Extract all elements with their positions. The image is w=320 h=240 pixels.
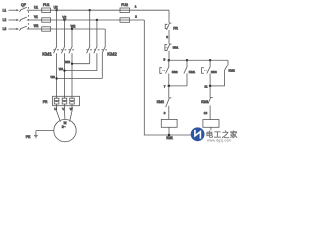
junction row1-KM2 [89,9,91,11]
contact KM2 aux (NO hold) [227,60,229,65]
wire KM2 pole3 cross to KM1 pole1 [57,78,103,80]
interlock KM1 (NC) [209,86,211,98]
breaker QF pole 3 [20,29,21,31]
svg-text:KM1: KM1 [42,52,52,57]
svg-text:U2: U2 [54,6,58,10]
breaker QF pole 2 [20,20,21,22]
wire KM1 pole3 feed [71,29,73,46]
svg-text:U: U [54,107,56,111]
coil KM1 [161,119,177,127]
wire row1 fuse to control elbow [51,9,169,11]
contactor KM1 contact 1 [54,46,57,53]
fuse FU2 pole 1 [120,8,130,13]
svg-text:KM2: KM2 [157,100,164,104]
wire L1 arrow [9,9,17,11]
svg-text:V2: V2 [62,15,66,19]
wire control left rail [144,20,191,135]
wire FR to motor V [64,106,66,120]
wire KM2 pole1 feed [89,10,91,46]
contactor KM1 contact 3 [69,46,72,53]
fuse FU1 pole 1 [42,8,51,12]
wire L3 arrow [9,28,17,30]
wire KM1 pole2 feed [64,20,66,46]
pushbutton SB1 (NC stop) [169,43,172,45]
svg-text:W2: W2 [71,24,76,28]
svg-text:13: 13 [204,111,208,115]
thermal relay FR heater 3 [71,96,73,98]
junction row3-KM1 [71,28,73,30]
coil KM2 [203,120,219,128]
wire KM2 pole2 feed [96,20,98,46]
wire row3 fuse to KM2 pole3 corner [51,28,106,30]
junction row2-KM2 [96,19,98,21]
svg-text:PE: PE [26,135,31,139]
node 11 [210,85,225,87]
svg-text:V1: V1 [34,15,38,19]
svg-text:3~: 3~ [62,125,66,129]
svg-text:FR: FR [43,100,48,104]
junction bus-SB3 [209,59,211,61]
fuse FU1 pole 3 [42,27,51,31]
svg-text:L1: L1 [3,8,7,12]
contactor KM1 contact 2 [61,46,64,53]
wire FR to SB1 [168,30,170,44]
svg-text:1: 1 [135,5,137,9]
thermal relay FR box [53,96,80,105]
junction row2-KM1 [63,19,65,21]
svg-text:FR: FR [173,27,178,31]
breaker QF linkage dashed [28,7,30,31]
node 7 [169,85,187,87]
wire row2 fuse to control rail elbow [51,19,145,21]
wire L2 arrow [9,19,17,21]
svg-text:5: 5 [164,58,166,62]
wire KM2 pole3 feed [104,29,106,46]
wire row2 QF to fuse [27,19,42,21]
svg-text:W1: W1 [34,24,39,28]
svg-text:W13: W13 [65,61,71,64]
breaker QF pole 1 [20,10,21,12]
node 5 [168,59,171,62]
svg-text:L2: L2 [3,18,7,22]
pushbutton SB2 (NO start fwd) [168,60,170,66]
svg-text:QF: QF [21,3,26,7]
svg-text:W: W [70,107,73,111]
contactor KM2 contact 3 [102,46,105,53]
svg-text:KM2: KM2 [229,68,236,72]
svg-text:3: 3 [166,35,168,39]
thermal relay FR heater 2 [64,96,66,98]
fuse FU2 pole 2 [120,18,130,23]
motor M [54,119,76,141]
wire KM2 pole2 cross to KM1 pole2 [65,70,97,72]
svg-text:SB1: SB1 [173,46,179,50]
svg-text:SB2: SB2 [172,70,178,74]
contactor KM2 contact 1 [87,46,90,53]
wire KM2 pole1 cross to KM1 pole3 [72,63,90,65]
svg-text:SB3: SB3 [211,70,217,74]
contactor KM2 contact 2 [94,46,97,53]
svg-text:2: 2 [135,15,137,19]
svg-text:11: 11 [204,84,207,88]
wire PE to motor [36,130,54,132]
contactor KM2 linkage dashed [86,49,107,51]
watermark logo [191,127,205,141]
wire control right feed elbow [168,10,170,23]
svg-text:9: 9 [164,111,166,115]
svg-text:KM1: KM1 [189,70,196,74]
svg-text:V13: V13 [59,68,64,71]
pushbutton SB3 (NO start rev) [209,60,211,66]
interlock KM2 (NC) [168,86,170,98]
svg-text:7: 7 [164,84,166,88]
svg-text:U13: U13 [51,76,56,79]
wire row3 QF to fuse [27,28,42,30]
svg-text:FU2: FU2 [121,3,128,7]
wire branch bus [169,59,228,61]
contactor KM1 linkage dashed [53,49,74,51]
svg-text:L3: L3 [3,27,7,31]
contact KM1 aux (NO hold) [186,60,188,66]
wire FR to motor U [57,106,61,122]
thermal contact FR (NC) [169,22,171,24]
svg-text:FU1: FU1 [43,3,50,7]
wire SB1 to node5 [168,51,170,60]
wire KM1 pole1 feed [56,10,58,46]
ground [35,131,37,136]
wire row1 QF to fuse [27,9,42,11]
svg-text:KM1: KM1 [166,136,173,140]
svg-text:KM2: KM2 [107,52,117,57]
svg-text:U1: U1 [34,5,38,9]
svg-text:www.dgzj.com: www.dgzj.com [207,138,232,142]
svg-text:KM1: KM1 [201,100,208,104]
junction row1-KM1 [55,9,57,11]
wire FR to motor W [70,106,72,122]
thermal relay FR heater 1 [56,96,58,98]
fuse FU1 pole 2 [42,18,51,22]
junction bus-KM1aux [186,59,188,61]
